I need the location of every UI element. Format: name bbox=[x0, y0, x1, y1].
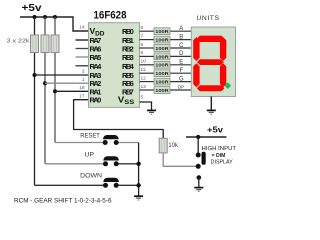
svg-text:7: 7 bbox=[141, 33, 144, 39]
svg-text:RB4: RB4 bbox=[122, 62, 135, 71]
svg-text:10: 10 bbox=[141, 59, 147, 65]
svg-text:18: 18 bbox=[79, 85, 85, 91]
svg-text:100R: 100R bbox=[155, 88, 169, 94]
svg-text:100R: 100R bbox=[155, 38, 169, 44]
svg-text:17: 17 bbox=[79, 93, 85, 99]
svg-text:13: 13 bbox=[141, 84, 147, 90]
svg-text:F: F bbox=[179, 68, 183, 74]
svg-text:100R: 100R bbox=[155, 71, 169, 77]
svg-text:G: G bbox=[179, 76, 184, 82]
svg-text:+5v: +5v bbox=[22, 3, 43, 14]
svg-text:10k: 10k bbox=[168, 143, 179, 149]
svg-text:E: E bbox=[179, 60, 183, 66]
svg-text:= DIM: = DIM bbox=[212, 153, 226, 159]
svg-text:RA5: RA5 bbox=[90, 53, 102, 62]
svg-text:6: 6 bbox=[141, 25, 144, 31]
svg-text:3 x 22k: 3 x 22k bbox=[7, 39, 30, 45]
svg-text:DOWN: DOWN bbox=[80, 173, 102, 179]
svg-text:100R: 100R bbox=[155, 54, 169, 60]
svg-text:2: 2 bbox=[82, 69, 85, 75]
svg-text:C: C bbox=[179, 43, 184, 49]
svg-text:5: 5 bbox=[141, 95, 144, 101]
svg-text:100R: 100R bbox=[155, 46, 169, 52]
svg-text:1: 1 bbox=[82, 77, 85, 83]
svg-text:RESET: RESET bbox=[80, 133, 100, 139]
svg-text:14: 14 bbox=[79, 25, 85, 31]
svg-text:B: B bbox=[179, 34, 183, 40]
svg-text:16F628: 16F628 bbox=[94, 10, 127, 22]
svg-text:9: 9 bbox=[141, 50, 144, 56]
svg-text:HIGH INPUT: HIGH INPUT bbox=[202, 146, 237, 152]
svg-text:UNITS: UNITS bbox=[197, 16, 220, 22]
svg-text:RB0: RB0 bbox=[122, 27, 134, 36]
svg-text:11: 11 bbox=[141, 67, 146, 73]
svg-text:RA0: RA0 bbox=[90, 96, 102, 105]
svg-text:D: D bbox=[179, 51, 184, 57]
svg-text:DP: DP bbox=[178, 85, 184, 90]
svg-text:UP: UP bbox=[85, 153, 95, 159]
svg-text:RCM - GEAR SHIFT 1-0-2-3-4-5-6: RCM - GEAR SHIFT 1-0-2-3-4-5-6 bbox=[14, 198, 112, 205]
svg-text:RB3: RB3 bbox=[122, 53, 134, 62]
svg-text:12: 12 bbox=[141, 75, 147, 81]
svg-text:100R: 100R bbox=[155, 80, 169, 86]
svg-text:A: A bbox=[179, 26, 183, 32]
svg-text:DISPLAY: DISPLAY bbox=[211, 160, 234, 166]
svg-text:100R: 100R bbox=[155, 29, 169, 35]
svg-text:100R: 100R bbox=[155, 63, 169, 69]
svg-text:RA4: RA4 bbox=[90, 62, 103, 71]
svg-text:8: 8 bbox=[141, 42, 144, 48]
svg-text:+5v: +5v bbox=[207, 126, 224, 135]
